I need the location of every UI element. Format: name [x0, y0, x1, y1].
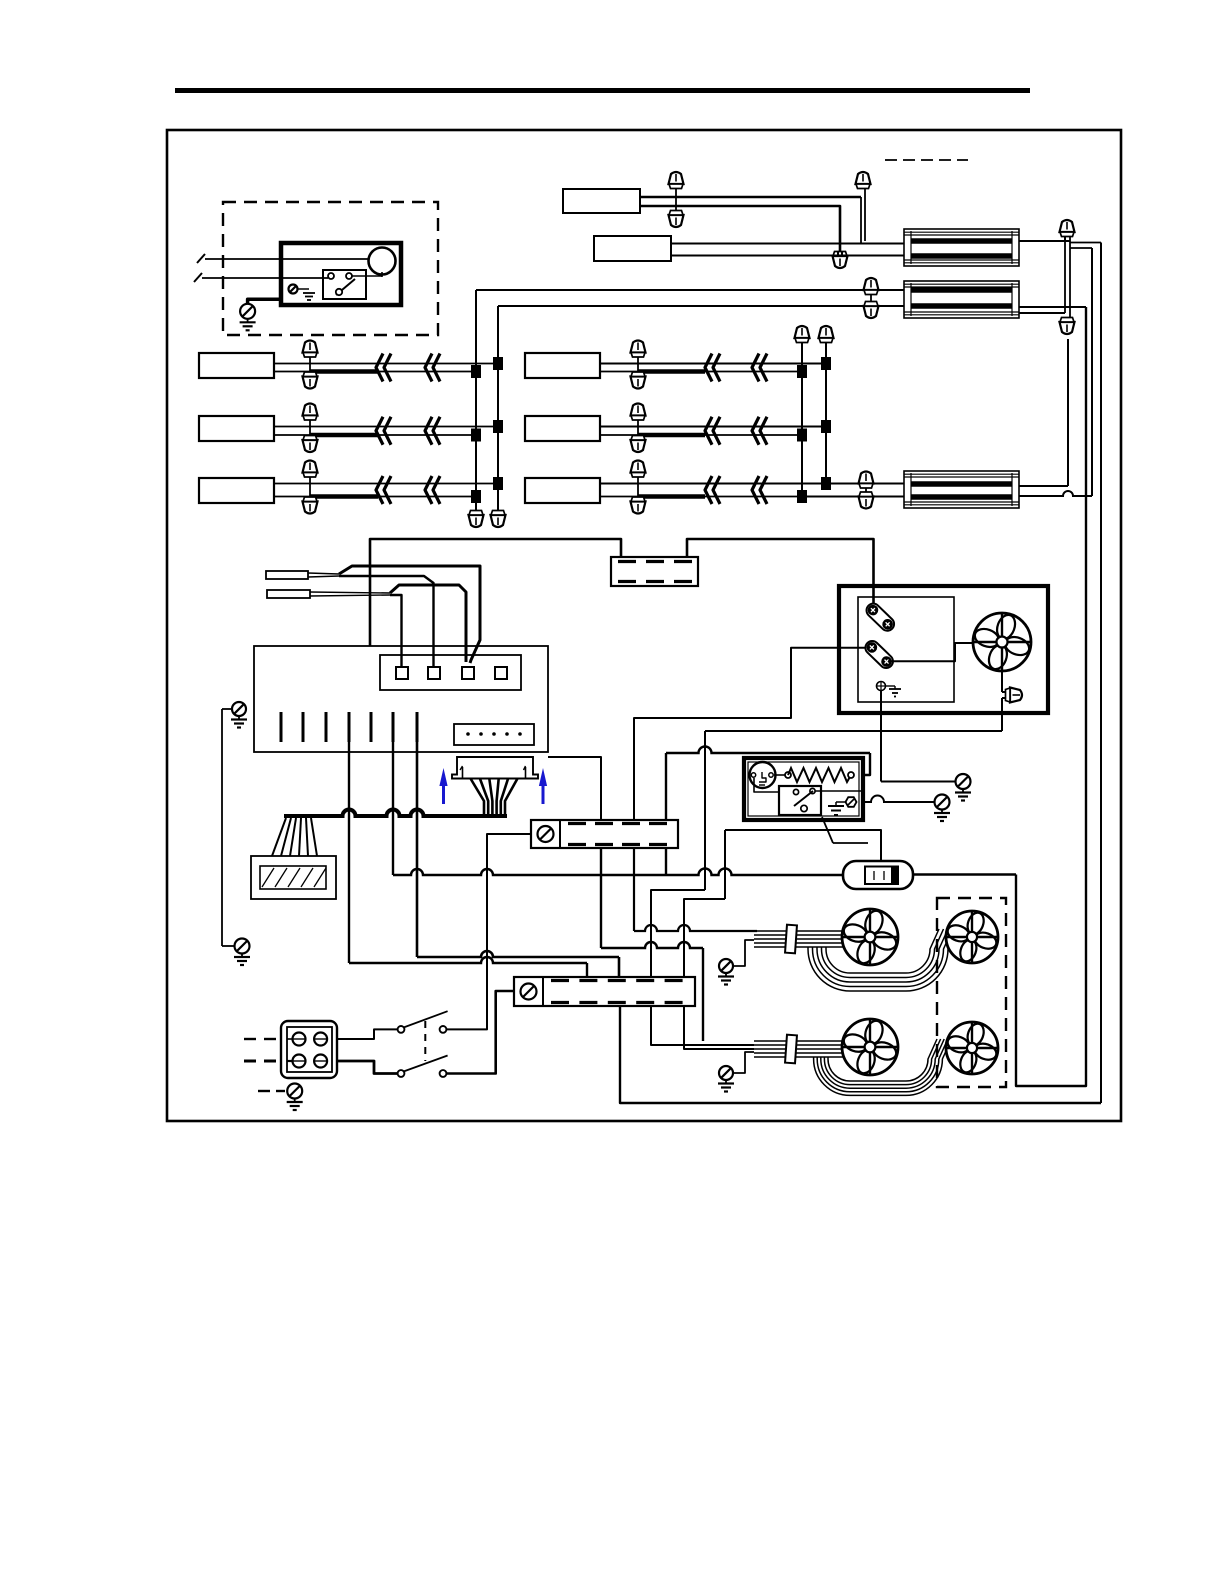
- wire R1 bottom thick: [600, 371, 638, 373]
- bus4 vertical: [825, 338, 827, 484]
- chevron splice R2 a: [705, 417, 712, 445]
- compressor box: [744, 758, 863, 820]
- condenser fan blades: [973, 613, 1031, 671]
- wire L2 bottom thin segment: [378, 434, 476, 436]
- ground screw G8: [719, 1066, 733, 1080]
- wire compressor to ground G4: [881, 781, 955, 783]
- connector CP1 up: [1060, 220, 1075, 237]
- terminal circle: [314, 1033, 327, 1046]
- connector cross H3 wires: [865, 486, 867, 494]
- wire tick417 to strip2: [416, 742, 419, 957]
- connector cross L1: [309, 353, 311, 377]
- chevron splice L2 a: [376, 417, 383, 445]
- chevron splice R1 a: [705, 354, 712, 382]
- connector bus3 top: [795, 326, 810, 343]
- wire branch to right riser 2: [1070, 247, 1092, 249]
- ground terminal in fan box: [877, 682, 886, 691]
- rocker switch: [843, 861, 913, 889]
- wire R2 top: [600, 426, 826, 428]
- wire S1 lower: [640, 206, 840, 252]
- terminal block TB (4 circles): [281, 1021, 337, 1078]
- wire L2 top: [274, 426, 498, 428]
- connector bus2 bottom: [491, 511, 506, 528]
- connector cross R3: [637, 473, 639, 502]
- harness trunk: [284, 810, 507, 816]
- connector CP2 down: [1060, 318, 1075, 335]
- wire L3 bottom thin segment: [378, 496, 476, 498]
- junction L3 on bus1: [471, 490, 481, 503]
- row1 ground wire: [733, 940, 754, 966]
- evaporator fan F3: [842, 1019, 898, 1075]
- row2 fan bundle: [828, 1039, 937, 1081]
- label box L2: [199, 416, 274, 441]
- dashed lead upper: [244, 1038, 256, 1040]
- CN harness wires: [471, 779, 485, 818]
- defrost return loop: [1016, 307, 1086, 1086]
- wire capsule2 feed down: [634, 648, 869, 820]
- dashed fan enclosure: [937, 898, 1006, 1087]
- chevron splice L2 b: [425, 417, 432, 445]
- bus2 top wire to H2: [498, 305, 904, 307]
- lamp bulb: [369, 248, 396, 275]
- wire T1a to board sq3: [339, 566, 480, 663]
- wire row3 to heater H3 top: [826, 483, 904, 485]
- dashed boundary box (lamp compartment): [223, 202, 438, 335]
- ground screw G5: [935, 795, 950, 810]
- connector cross L2: [309, 416, 311, 441]
- junction R1 on bus4: [821, 357, 831, 370]
- heater H3: [904, 471, 1019, 508]
- wire fan to connector: [1001, 671, 1003, 692]
- compressor terminal right: [769, 773, 773, 777]
- display unit outer box: [251, 856, 336, 899]
- compressor terminal left: [751, 773, 755, 777]
- ground screw G3: [235, 939, 250, 954]
- wire tick393 switch run: [392, 742, 394, 875]
- wire H2 bottom right to connector pair: [1019, 312, 1065, 314]
- thermistor T1 tail: [308, 573, 339, 574]
- lamp switch lower contact: [336, 289, 342, 295]
- evaporator fan row1 cable: [754, 930, 843, 932]
- board 5-dot connector: [454, 724, 534, 745]
- slash mark upper lead: [197, 254, 205, 263]
- connector block CB1: [611, 557, 698, 586]
- wire L2 bottom thick segment: [274, 434, 310, 436]
- wire L3 bottom thick segment: [274, 496, 310, 498]
- evaporator fan F2: [946, 911, 998, 963]
- wire y830 cross link: [725, 830, 881, 874]
- bus1 top wire to H2: [476, 289, 904, 291]
- wire fan box ground down: [880, 690, 882, 782]
- junction L2 on bus2: [493, 420, 503, 433]
- overload protector zigzag: [785, 772, 791, 778]
- switch link dashed: [424, 1021, 426, 1061]
- heater H2: [904, 281, 1019, 318]
- capsule terminal K2: [863, 638, 896, 671]
- wire lamp supply upper: [205, 258, 369, 260]
- junction L2 on bus1: [471, 429, 481, 442]
- connector block tab 3: [674, 560, 692, 563]
- diagram border frame: [167, 130, 1121, 1121]
- connector pair stem: [1064, 232, 1066, 241]
- condenser fan box: [839, 586, 1048, 713]
- wire strip1 tab602 down: [600, 848, 602, 948]
- wire TB to switch pole2: [337, 1061, 397, 1074]
- connector bus1 bottom: [469, 511, 484, 528]
- relay contact A: [793, 789, 798, 794]
- wire board to strip1: [548, 757, 601, 820]
- thermistor T2 body: [267, 590, 310, 598]
- right riser x1092: [1091, 248, 1093, 496]
- thermistor T2 tail: [310, 592, 390, 593]
- chevron splice L3 a: [376, 476, 383, 504]
- label box L3: [199, 478, 274, 503]
- lamp switch box: [323, 270, 366, 299]
- lamp housing box: [281, 243, 401, 305]
- wire R1 bottom thin: [705, 371, 802, 373]
- chevron splice R1 b: [752, 354, 759, 382]
- connector cross R1: [637, 353, 639, 377]
- CN pin mark 1: [462, 767, 464, 778]
- lamp switch blade: [336, 279, 355, 295]
- wire lamp ground thick: [248, 299, 281, 304]
- top rule: [175, 88, 1030, 93]
- wire rocker to loop: [913, 873, 1016, 876]
- thermistor T1 body: [266, 571, 308, 579]
- wire L1 bottom thin segment: [378, 371, 476, 373]
- CN pin mark 2: [525, 767, 527, 778]
- board terminal square 3: [462, 667, 474, 679]
- board terminal sub-box: [380, 655, 521, 690]
- wire condenser fan return: [1001, 698, 1003, 731]
- chevron splice L1 b: [425, 354, 432, 382]
- ground screw G6: [287, 1084, 302, 1099]
- wire switch pole2 to strip2: [447, 991, 515, 1074]
- display harness fan: [272, 818, 286, 856]
- board terminal square 4: [495, 667, 507, 679]
- relay lower contact: [801, 805, 807, 811]
- blue arrow right: [539, 768, 547, 804]
- wire S2 lower to heater H1 bottom: [671, 255, 904, 257]
- row1 fan bundle: [826, 929, 939, 973]
- relay wire to box edge: [815, 790, 863, 792]
- junction R3 on bus3: [797, 490, 807, 503]
- wire branch to right riser 1: [1070, 242, 1101, 244]
- terminal circle: [314, 1055, 327, 1068]
- bus1 vertical: [475, 290, 477, 515]
- board terminal square 1: [396, 667, 408, 679]
- relay blade: [794, 791, 813, 806]
- switch pole2 contact L: [398, 1070, 405, 1077]
- connector (spare, pointing down): [833, 252, 848, 269]
- wire R3 bottom thick: [600, 496, 638, 498]
- wire ground chain: [221, 709, 223, 946]
- evaporator fan row2 cable: [754, 1040, 843, 1042]
- label box R3: [525, 478, 600, 503]
- connector cross R2: [637, 416, 639, 441]
- dashed lead ground: [258, 1090, 270, 1092]
- terminal circle: [293, 1055, 306, 1068]
- wire R3 bottom thin: [705, 496, 802, 498]
- junction R2 on bus3: [797, 429, 807, 442]
- relay contact B: [810, 788, 815, 793]
- label box R2: [525, 416, 600, 441]
- wire H2 to return loop: [1019, 306, 1086, 308]
- chevron splice R2 b: [752, 417, 759, 445]
- switch pole2 blade: [404, 1056, 448, 1072]
- ground screw G1 (lamp): [240, 304, 255, 319]
- connector cross L3: [309, 473, 311, 502]
- connector cross on H2 wires: [870, 293, 872, 303]
- ground screw G7: [719, 959, 733, 973]
- wire capsule2 to fan: [888, 643, 973, 661]
- connector fan output: [1006, 688, 1023, 703]
- chevron splice L1 a: [376, 354, 383, 382]
- chevron splice R3 b: [752, 476, 759, 504]
- screw terminal in lamp box: [289, 285, 298, 294]
- junction L3 on bus2: [493, 477, 503, 490]
- wire R3 top: [600, 483, 826, 485]
- wire control feed left: [370, 539, 621, 646]
- ground screw G2: [232, 702, 246, 716]
- wire row3 to heater H3 bottom: [802, 496, 904, 498]
- CN connector shell: [452, 757, 538, 779]
- label box S1: [563, 189, 640, 213]
- capsule terminal K1: [864, 601, 897, 634]
- wire TB to switch pole1: [337, 1029, 397, 1039]
- wire strip1 screw to switch: [447, 834, 532, 1029]
- connector on node A: [856, 172, 871, 189]
- dashed annotation line: [885, 159, 968, 161]
- terminal strip TS2: [514, 977, 695, 1006]
- wire connector pair to H3 top: [1067, 339, 1069, 486]
- wire S2 upper to heater H1: [671, 243, 904, 245]
- wire R2 bottom thick: [600, 434, 638, 436]
- junction R1 on bus3: [797, 365, 807, 378]
- wire strip2 tab651 to row2 cable: [651, 1006, 754, 1045]
- lamp switch contact A: [328, 273, 334, 279]
- slash mark lower lead: [194, 273, 202, 282]
- label box R1: [525, 353, 600, 378]
- heater H1 (defrost): [904, 229, 1019, 266]
- ground hex in compressor box: [846, 797, 857, 807]
- evaporator fan F1: [842, 909, 898, 965]
- chevron splice L3 b: [425, 476, 432, 504]
- wire H1 top right to connector pair: [1019, 240, 1070, 242]
- wire relay to ground G5: [863, 796, 934, 802]
- label box L1: [199, 353, 274, 378]
- wire L3 top: [274, 483, 498, 485]
- wire strip2 to bottom loop: [620, 1006, 1101, 1103]
- junction L1 on bus2: [493, 357, 503, 370]
- switch pole1 contact R: [440, 1026, 447, 1033]
- wire strip2 feed from 725: [724, 830, 726, 899]
- board pin ticks: [280, 712, 283, 742]
- wire R2 bottom thin: [705, 434, 802, 436]
- dashed lead lower: [244, 1060, 256, 1063]
- wire compressor loop lower: [666, 869, 843, 876]
- switch pole1 contact L: [398, 1026, 405, 1033]
- wire L1 top: [274, 363, 498, 365]
- switch pole2 contact R: [440, 1070, 447, 1077]
- wire control feed right: [687, 539, 874, 608]
- right riser x1101: [1100, 243, 1102, 1104]
- connector bus4 top: [819, 326, 834, 343]
- evaporator fan F4: [946, 1022, 998, 1074]
- connector block tab 1: [618, 560, 636, 563]
- wire lamp supply lower: [202, 277, 328, 279]
- chevron splice R3 a: [705, 476, 712, 504]
- compressor motor circle: [750, 762, 776, 788]
- wire motor right to zigzag: [774, 774, 785, 776]
- label box S2: [594, 236, 671, 261]
- wire T1b to board sq2: [339, 576, 434, 667]
- fan box inner box: [858, 597, 954, 702]
- terminal strip TS1: [531, 820, 678, 848]
- wire L1 bottom thick segment: [274, 371, 310, 373]
- wire tick349 to strip2: [348, 742, 350, 963]
- wire compressor loop upper: [665, 753, 667, 875]
- wire switch to bulb: [352, 275, 382, 277]
- lamp switch contact B: [346, 273, 352, 279]
- leader line: [822, 817, 833, 843]
- ground screw G4: [956, 774, 971, 789]
- bus2 vertical: [497, 306, 499, 515]
- connector block tab 2: [646, 560, 664, 563]
- compressor internal mark: [759, 772, 766, 782]
- control board outline: [254, 646, 548, 752]
- switch pole1 blade: [404, 1011, 448, 1027]
- wire T2a to board sq3: [390, 585, 466, 662]
- ground symbol in compressor box: [836, 801, 845, 803]
- bus3 vertical: [801, 338, 803, 497]
- junction R2 on bus4: [821, 420, 831, 433]
- blue arrow left: [439, 768, 447, 804]
- start relay box: [779, 786, 821, 815]
- wire compressor run top: [665, 752, 667, 754]
- display window hatched: [260, 866, 326, 889]
- terminal circle: [293, 1033, 306, 1046]
- wire R1 top: [600, 363, 826, 365]
- wire strip1 tab635 down: [633, 848, 635, 931]
- wire motor left to relay: [754, 778, 779, 792]
- row2 ground wire: [733, 1052, 754, 1073]
- junction L1 on bus1: [471, 365, 481, 378]
- board terminal square 2: [428, 667, 440, 679]
- wire H3 bottom to riser x1092: [1019, 491, 1092, 496]
- wire T2b to board sq1: [390, 595, 402, 667]
- connector cross on S1 wires: [675, 184, 677, 215]
- junction R3 on bus4: [821, 477, 831, 490]
- wire strip2 tab684 to row2 cable: [684, 1006, 754, 1049]
- wire S1 upper: [640, 196, 861, 199]
